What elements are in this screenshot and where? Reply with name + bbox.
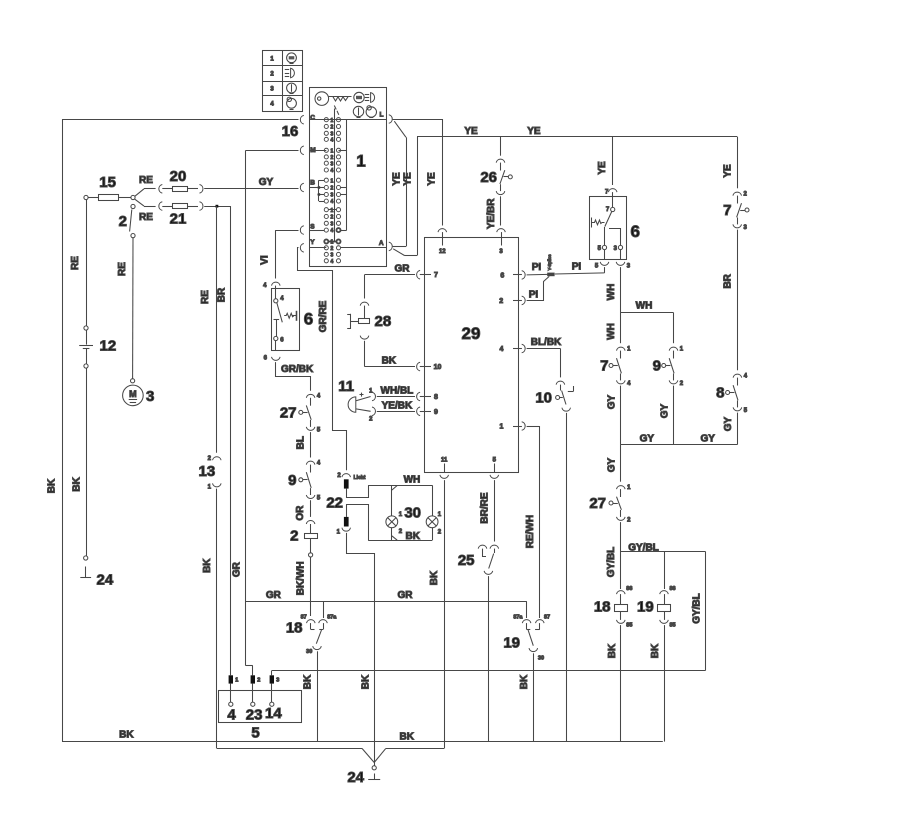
svg-text:BK: BK [361, 674, 372, 689]
wire BK lower cross bus [272, 670, 706, 672]
pin 12 [438, 229, 447, 232]
motor 3 starter [131, 379, 135, 383]
wire GY/BL branch [621, 551, 706, 553]
svg-text:20: 20 [170, 168, 187, 185]
svg-text:WH/BL: WH/BL [381, 386, 414, 397]
horn terminal 2 [356, 409, 371, 411]
svg-text:2: 2 [331, 125, 334, 131]
wire GY switch9 to bus [673, 386, 675, 445]
terminal 14 [271, 684, 273, 703]
svg-text:30: 30 [404, 504, 421, 521]
svg-text:29: 29 [462, 324, 481, 343]
svg-text:2: 2 [369, 417, 373, 423]
relay 19 contact [526, 601, 528, 618]
svg-text:24: 24 [347, 769, 364, 786]
fuse 2 lower [306, 521, 315, 524]
svg-text:GR: GR [398, 590, 414, 601]
svg-text:9: 9 [288, 472, 296, 489]
svg-text:1: 1 [627, 485, 631, 491]
wire GR bus [246, 601, 527, 603]
key switch S row wires [328, 209, 336, 211]
svg-text:15: 15 [99, 174, 116, 191]
svg-text:Licht: Licht [354, 475, 366, 481]
wire BR switch7 right feed [737, 137, 739, 189]
svg-text:1: 1 [208, 485, 212, 491]
pin 7 [417, 270, 420, 279]
svg-text:BK: BK [405, 531, 420, 542]
lamp 30 right [432, 485, 434, 516]
wire YE top bus [417, 136, 737, 138]
wire BK/WH fuse2 to relay 18 [310, 557, 312, 616]
wire YE bus to switch 26 [500, 137, 502, 156]
svg-text:YE: YE [527, 126, 541, 137]
key switch pin grid [324, 118, 328, 122]
wire GR from key switch M [246, 150, 299, 152]
wire PI splice to box29 pin2 [527, 276, 550, 300]
wire main BK ground bus [62, 741, 663, 743]
pin 3 [497, 229, 506, 232]
svg-text:1: 1 [235, 678, 238, 684]
terminal 5 below box6 [600, 262, 609, 265]
svg-text:3: 3 [744, 225, 748, 231]
svg-text:3: 3 [614, 246, 618, 252]
wire WH to switch 7 [620, 313, 622, 344]
wire WH box6 pin3 down [620, 267, 622, 313]
svg-text:87a: 87a [513, 615, 523, 621]
svg-text:RE: RE [139, 212, 153, 223]
svg-text:3: 3 [146, 388, 154, 405]
svg-text:1: 1 [331, 240, 334, 246]
svg-text:BK: BK [202, 558, 213, 573]
svg-text:2: 2 [499, 298, 503, 305]
svg-text:GY: GY [640, 434, 655, 445]
svg-text:22: 22 [326, 495, 343, 512]
pin 9 [417, 407, 420, 416]
svg-text:5: 5 [251, 725, 259, 742]
svg-text:1: 1 [331, 118, 334, 124]
wire BR to switch 8 [737, 230, 739, 371]
switch 2 ignition contact [131, 195, 135, 199]
wire GY/BL to relay 19 coil [664, 552, 666, 590]
key switch 1 box [310, 88, 387, 267]
wire BL [310, 432, 312, 457]
svg-text:WH: WH [636, 301, 653, 312]
wire from fuse 21 [204, 206, 231, 208]
wire BK battery to ground [86, 368, 88, 556]
wire L to box29 pin12 [393, 119, 442, 121]
icon headlight [285, 69, 289, 71]
svg-text:23: 23 [246, 707, 263, 724]
wire OR [310, 500, 312, 517]
svg-text:13: 13 [199, 463, 216, 480]
svg-text:14: 14 [265, 705, 282, 722]
connector 25 [478, 545, 487, 548]
svg-text:4: 4 [317, 394, 321, 400]
svg-text:2: 2 [399, 529, 403, 535]
svg-text:1: 1 [337, 530, 341, 536]
pin 11 [444, 464, 446, 473]
key switch B bracket [309, 187, 324, 189]
svg-text:5: 5 [598, 246, 602, 252]
svg-text:C: C [310, 114, 315, 121]
icon bulb stop [287, 53, 297, 63]
svg-text:YE/BK: YE/BK [382, 400, 413, 411]
svg-text:BK: BK [607, 643, 618, 658]
relay coil 18 [617, 591, 626, 594]
svg-text:26: 26 [480, 169, 497, 186]
wire WH branch [621, 312, 674, 314]
svg-text:Y: Y [310, 239, 315, 246]
svg-text:WH: WH [404, 475, 421, 486]
svg-text:BL: BL [295, 436, 306, 449]
svg-text:9: 9 [653, 358, 661, 375]
switch 10 [556, 381, 565, 384]
svg-text:BK: BK [429, 570, 440, 585]
connector 5 box [219, 691, 302, 723]
svg-text:A: A [379, 240, 384, 247]
wire RE battery feed [86, 200, 88, 326]
wire BK switch22 to ground [347, 533, 375, 763]
svg-text:RE/WH: RE/WH [525, 515, 536, 548]
svg-text:4: 4 [280, 296, 284, 302]
svg-text:8: 8 [434, 394, 438, 401]
svg-text:GY: GY [700, 434, 715, 445]
svg-text:3: 3 [331, 253, 334, 259]
wire top border [62, 119, 299, 121]
wire BK coil18 to bus [620, 625, 622, 742]
fuse 20 [159, 185, 162, 194]
wire WH/BL horn to pin8 [377, 396, 415, 398]
wire PI box29 pin6 to splice [527, 273, 548, 276]
wire BK connector 13 to lower bus [216, 489, 218, 749]
switch 7 left [617, 347, 626, 350]
wire RE down to connector 13 [216, 206, 218, 453]
svg-text:85: 85 [626, 623, 632, 629]
svg-text:18: 18 [594, 599, 611, 616]
svg-text:1: 1 [331, 178, 334, 184]
fuse 28 [360, 302, 369, 305]
wire GR to connector pin 2 [246, 665, 253, 667]
battery 12 [84, 326, 88, 330]
svg-text:BR: BR [723, 273, 734, 288]
light switch 22 terminal 2 [342, 474, 351, 477]
wire GY switch7 to bus [620, 386, 622, 445]
svg-text:4: 4 [331, 259, 334, 265]
wire L diagonal to A [394, 121, 406, 137]
connector 13 [213, 457, 222, 460]
svg-text:10: 10 [535, 390, 552, 407]
svg-text:2: 2 [744, 191, 748, 197]
svg-text:1: 1 [627, 346, 631, 352]
svg-text:27: 27 [589, 495, 606, 512]
svg-text:7: 7 [723, 202, 731, 219]
svg-text:GR: GR [231, 561, 242, 577]
svg-text:GY: GY [659, 403, 670, 418]
svg-text:BK: BK [382, 355, 397, 366]
horn terminal 1 [356, 397, 371, 401]
svg-text:BK/WH: BK/WH [295, 561, 306, 595]
svg-text:BK: BK [71, 476, 82, 491]
svg-text:BR/RE: BR/RE [479, 492, 490, 523]
svg-text:21: 21 [170, 211, 187, 228]
svg-text:4: 4 [227, 707, 236, 724]
svg-text:18: 18 [286, 620, 303, 637]
node ground V junction [362, 748, 374, 762]
svg-text:GY/BL: GY/BL [606, 547, 617, 578]
wire to fuses 20/21 [135, 189, 144, 197]
svg-text:5: 5 [317, 427, 321, 433]
svg-text:11: 11 [338, 378, 354, 395]
svg-text:RE: RE [70, 256, 81, 270]
svg-text:3: 3 [276, 678, 279, 684]
svg-text:OR: OR [295, 505, 306, 521]
svg-text:10: 10 [434, 364, 442, 371]
svg-text:VI: VI [260, 255, 271, 265]
wire GY fuse20 to key switch [204, 188, 298, 190]
pin 8 [417, 392, 420, 401]
svg-text:30: 30 [538, 656, 544, 662]
svg-text:BK: BK [519, 674, 530, 689]
pin 6 [522, 271, 525, 280]
wire BK relay19 to bus [533, 653, 535, 741]
svg-text:2: 2 [270, 72, 274, 78]
svg-text:1: 1 [399, 512, 403, 518]
terminal 3 below box6 [616, 262, 625, 265]
svg-text:YE: YE [464, 126, 478, 137]
wire switch10 to bus [566, 413, 568, 742]
svg-text:RE: RE [139, 175, 153, 186]
svg-text:GR/BK: GR/BK [281, 364, 314, 375]
wire GR/BK box6 to switch 27 [276, 362, 311, 391]
wire BL/BK box29 pin4 to switch 10 [527, 348, 561, 350]
wire lower BK bus [217, 748, 362, 750]
svg-text:4: 4 [317, 460, 321, 466]
svg-text:6: 6 [631, 222, 640, 241]
svg-text:7: 7 [605, 190, 609, 196]
switch 26 [496, 159, 505, 162]
svg-text:BK: BK [47, 478, 58, 493]
ground 24 left [84, 556, 88, 560]
svg-text:4: 4 [331, 168, 334, 174]
svg-text:85: 85 [670, 623, 676, 629]
svg-text:6: 6 [500, 272, 504, 279]
svg-text:PI: PI [532, 262, 542, 273]
connector pin 1 [229, 675, 233, 683]
switch 9 left [306, 461, 315, 464]
svg-text:2: 2 [331, 186, 334, 192]
wire YE/BK horn to pin9 [377, 411, 415, 413]
lamp 30 left [391, 485, 393, 516]
svg-text:19: 19 [637, 599, 654, 616]
svg-text:BK: BK [650, 643, 661, 658]
svg-text:GY: GY [606, 394, 617, 409]
key position table [263, 51, 303, 112]
Y splice [547, 273, 554, 277]
svg-text:5: 5 [595, 263, 599, 269]
svg-text:WH: WH [606, 323, 617, 340]
svg-text:4: 4 [744, 373, 748, 379]
icon bulb stop small [354, 92, 364, 102]
svg-text:7: 7 [606, 207, 610, 213]
svg-text:6: 6 [280, 338, 284, 344]
svg-text:BK: BK [399, 732, 414, 743]
svg-text:2: 2 [337, 473, 341, 479]
svg-text:BR: BR [217, 287, 228, 302]
wire GY bus [621, 444, 738, 446]
svg-text:GR: GR [395, 264, 411, 275]
svg-text:19: 19 [503, 635, 520, 652]
svg-text:GY/BL: GY/BL [628, 542, 659, 553]
relay coil 19 [660, 591, 669, 594]
svg-text:BL/BK: BL/BK [531, 337, 562, 348]
svg-text:1: 1 [331, 148, 334, 154]
svg-text:3: 3 [331, 193, 334, 199]
svg-text:27: 27 [280, 404, 297, 421]
svg-text:2: 2 [331, 155, 334, 161]
svg-text:24: 24 [97, 572, 114, 589]
svg-text:RE: RE [200, 290, 211, 304]
svg-text:B: B [310, 180, 315, 187]
svg-text:1: 1 [680, 346, 684, 352]
svg-text:3: 3 [270, 87, 274, 93]
svg-text:GY/BL: GY/BL [692, 593, 703, 624]
svg-text:3: 3 [331, 221, 334, 227]
key switch internal bus [334, 109, 336, 242]
control unit 29 box [425, 238, 519, 473]
svg-text:1: 1 [500, 424, 504, 431]
svg-text:2: 2 [208, 456, 212, 462]
switch 7 right [733, 192, 742, 195]
svg-text:4: 4 [500, 346, 504, 353]
wire RE starter motor [132, 238, 134, 379]
svg-text:PI: PI [529, 290, 539, 301]
wire BK fuse28 to box29 pin10 [364, 341, 366, 367]
connector pin 2 [251, 675, 255, 683]
wire YE/BR switch 26 to box29 pin3 [500, 196, 502, 225]
icon bulb parking [287, 98, 297, 108]
wire BK relay18 to bus [317, 651, 319, 741]
svg-text:30: 30 [306, 649, 312, 655]
svg-text:2: 2 [680, 381, 684, 387]
wire PI splice to box6 pin5 [555, 273, 605, 274]
svg-text:12: 12 [100, 338, 117, 355]
light switch 22 terminal 1 [347, 505, 369, 541]
pin 10 [417, 362, 420, 371]
wire GR box29 pin7 [365, 274, 416, 276]
pin 5 [494, 464, 496, 473]
horn 11 [348, 397, 356, 412]
svg-text:2: 2 [331, 246, 334, 252]
svg-text:YE: YE [426, 172, 437, 186]
svg-text:2: 2 [290, 528, 298, 545]
svg-text:1: 1 [356, 152, 365, 171]
switch 27 right [617, 486, 626, 489]
connector pin 3 [270, 675, 274, 683]
wire GY switch8 to bus [737, 413, 739, 445]
icon bulb parking small [366, 107, 376, 117]
svg-text:GY: GY [723, 416, 734, 431]
wire BK coil19 to bus [664, 625, 666, 742]
svg-text:2: 2 [438, 530, 442, 536]
svg-text:WH: WH [606, 284, 617, 301]
svg-text:4: 4 [270, 102, 274, 108]
icon headlight small [365, 94, 370, 96]
svg-text:7: 7 [600, 358, 608, 375]
svg-text:4: 4 [263, 283, 267, 289]
svg-text:11: 11 [441, 458, 448, 464]
svg-text:YE/BR: YE/BR [486, 198, 497, 229]
svg-text:YE: YE [723, 164, 734, 178]
svg-text:25: 25 [458, 552, 475, 569]
key switch Y row wires [324, 239, 328, 243]
terminal 4 [230, 684, 232, 703]
key pointer dash [334, 106, 336, 110]
pin 1 [522, 422, 525, 431]
svg-text:BK: BK [302, 674, 313, 689]
svg-text:3: 3 [331, 131, 334, 137]
svg-text:1: 1 [369, 388, 373, 394]
wire GY/BL from switch 27 [620, 522, 622, 589]
svg-text:YE: YE [403, 172, 414, 186]
svg-text:86: 86 [626, 586, 632, 592]
switch 27 left [306, 394, 315, 397]
svg-text:3: 3 [331, 161, 334, 167]
key switch row M1 wire [309, 150, 326, 152]
svg-text:7: 7 [434, 272, 438, 279]
svg-text:4: 4 [331, 138, 334, 144]
wire BR/RE box29 pin5 to connector 25 [494, 480, 496, 541]
key icon [315, 92, 329, 106]
pin 4 [522, 344, 525, 353]
svg-text:87: 87 [544, 615, 550, 621]
svg-text:GY: GY [259, 177, 274, 188]
pin 2 [522, 296, 525, 305]
svg-text:9: 9 [434, 409, 438, 416]
svg-text:8: 8 [716, 385, 724, 402]
wire left border [62, 119, 64, 742]
svg-text:M: M [129, 389, 137, 399]
svg-text:GY: GY [606, 457, 617, 472]
icon bulb position [287, 83, 297, 93]
switch 8 [733, 374, 742, 377]
svg-text:1: 1 [270, 57, 274, 63]
wire GR/RE key switch Y to light switch 22 [298, 248, 347, 471]
svg-text:2: 2 [257, 678, 260, 684]
relay 18 contact [323, 601, 325, 618]
key switch row C1 wire [309, 119, 387, 121]
svg-text:Y-Splice: Y-Splice [547, 254, 552, 271]
wire BK connector25 to bus [488, 576, 490, 742]
terminal 23 [252, 684, 254, 703]
svg-text:2: 2 [627, 517, 631, 523]
wire YE bus to box6 right [612, 137, 614, 185]
svg-text:YE: YE [597, 161, 608, 175]
svg-text:4: 4 [331, 228, 334, 234]
svg-text:4: 4 [331, 199, 334, 205]
wire BK box29 pin11 to bus [444, 480, 446, 748]
wire RE/WH box29 pin1 to relay 19 [527, 426, 540, 428]
svg-text:5: 5 [493, 458, 497, 464]
svg-text:3: 3 [499, 249, 503, 255]
svg-text:6: 6 [304, 310, 313, 329]
switch 9 right [669, 347, 678, 350]
wire VI key switch S to box6 [276, 230, 299, 232]
svg-text:L: L [380, 112, 384, 119]
svg-text:2: 2 [119, 213, 127, 230]
wire GY to switch 27 right [620, 445, 622, 482]
fuse 15 [84, 195, 88, 199]
wire A [393, 246, 406, 248]
